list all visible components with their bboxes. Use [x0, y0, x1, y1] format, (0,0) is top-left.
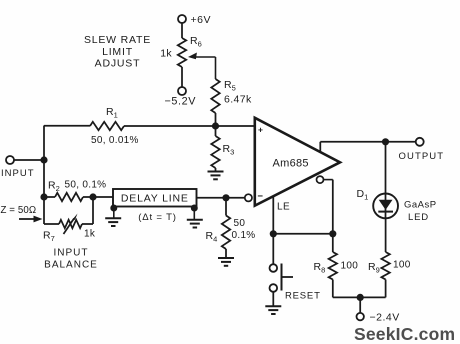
svg-text:INPUT: INPUT: [54, 248, 89, 259]
svg-text:Am685: Am685: [273, 158, 309, 170]
svg-text:RESET: RESET: [285, 291, 321, 302]
svg-text:INPUT: INPUT: [1, 168, 35, 179]
svg-text:1k: 1k: [160, 48, 172, 60]
svg-text:0.1%: 0.1%: [232, 230, 256, 241]
svg-text:OUTPUT: OUTPUT: [399, 151, 445, 162]
svg-text:50: 50: [234, 218, 246, 229]
svg-text:−2.4V: −2.4V: [370, 312, 400, 324]
svg-text:1k: 1k: [84, 229, 96, 240]
svg-text:SLEW RATE: SLEW RATE: [84, 34, 151, 46]
svg-text:100: 100: [393, 260, 411, 271]
svg-text:ADJUST: ADJUST: [95, 58, 141, 70]
svg-text:LED: LED: [408, 212, 429, 223]
svg-text:SeekIC.com: SeekIC.com: [354, 324, 455, 344]
svg-text:50, 0.01%: 50, 0.01%: [91, 135, 139, 146]
svg-text:50, 0.1%: 50, 0.1%: [65, 180, 107, 191]
svg-text:(Δt = T): (Δt = T): [138, 212, 176, 223]
svg-text:6.47k: 6.47k: [224, 94, 252, 106]
svg-text:+6V: +6V: [191, 14, 211, 26]
svg-text:DELAY LINE: DELAY LINE: [121, 193, 189, 205]
svg-text:Z = 50Ω: Z = 50Ω: [1, 205, 37, 216]
svg-text:+: +: [258, 124, 263, 134]
svg-text:−5.2V: −5.2V: [165, 96, 197, 108]
svg-text:LE: LE: [277, 201, 290, 212]
svg-text:100: 100: [341, 261, 359, 272]
svg-text:BALANCE: BALANCE: [44, 260, 98, 271]
svg-text:LIMIT: LIMIT: [102, 46, 133, 58]
svg-text:GaAsP: GaAsP: [404, 200, 437, 211]
svg-text:−: −: [257, 191, 263, 202]
